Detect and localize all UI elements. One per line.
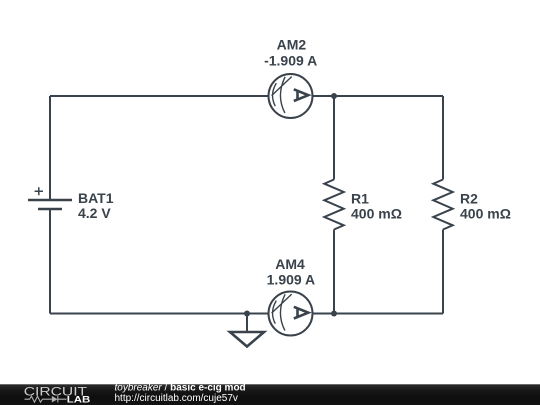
wire R1 branch bottom: [333, 230, 335, 314]
CircuitLab logo resistor-diode glyph: [25, 396, 67, 402]
wire R1 branch top: [333, 96, 335, 180]
svg-text:LAB: LAB: [67, 395, 90, 405]
wire bottom: [50, 313, 443, 315]
wire left upper: [49, 96, 51, 199]
battery BAT1: [28, 187, 72, 209]
ammeter AM2: [269, 74, 313, 118]
node junction bottom R1: [331, 311, 337, 317]
svg-text:AM2: AM2: [277, 36, 307, 52]
resistor R2: [433, 180, 452, 230]
wire left lower: [49, 210, 51, 314]
svg-text:BAT1: BAT1: [78, 190, 114, 206]
node junction top R1: [331, 93, 337, 99]
resistor R1: [324, 180, 343, 230]
wire R2 branch top: [442, 96, 444, 180]
svg-text:AM4: AM4: [275, 256, 305, 272]
wire top: [50, 95, 443, 97]
svg-text:R2: R2: [460, 191, 478, 207]
ground: [230, 314, 264, 347]
ammeter AM4: [269, 292, 313, 336]
svg-text:1.909 A: 1.909 A: [267, 272, 316, 288]
svg-text:R1: R1: [351, 191, 369, 207]
wire R2 branch bottom: [442, 230, 444, 314]
svg-text:400 mΩ: 400 mΩ: [351, 206, 402, 222]
svg-text:400 mΩ: 400 mΩ: [460, 206, 511, 222]
node junction ground: [244, 311, 250, 317]
svg-text:4.2 V: 4.2 V: [78, 205, 111, 221]
svg-text:-1.909 A: -1.909 A: [264, 53, 317, 69]
svg-text:http://circuitlab.com/cuje57v: http://circuitlab.com/cuje57v: [115, 393, 238, 404]
